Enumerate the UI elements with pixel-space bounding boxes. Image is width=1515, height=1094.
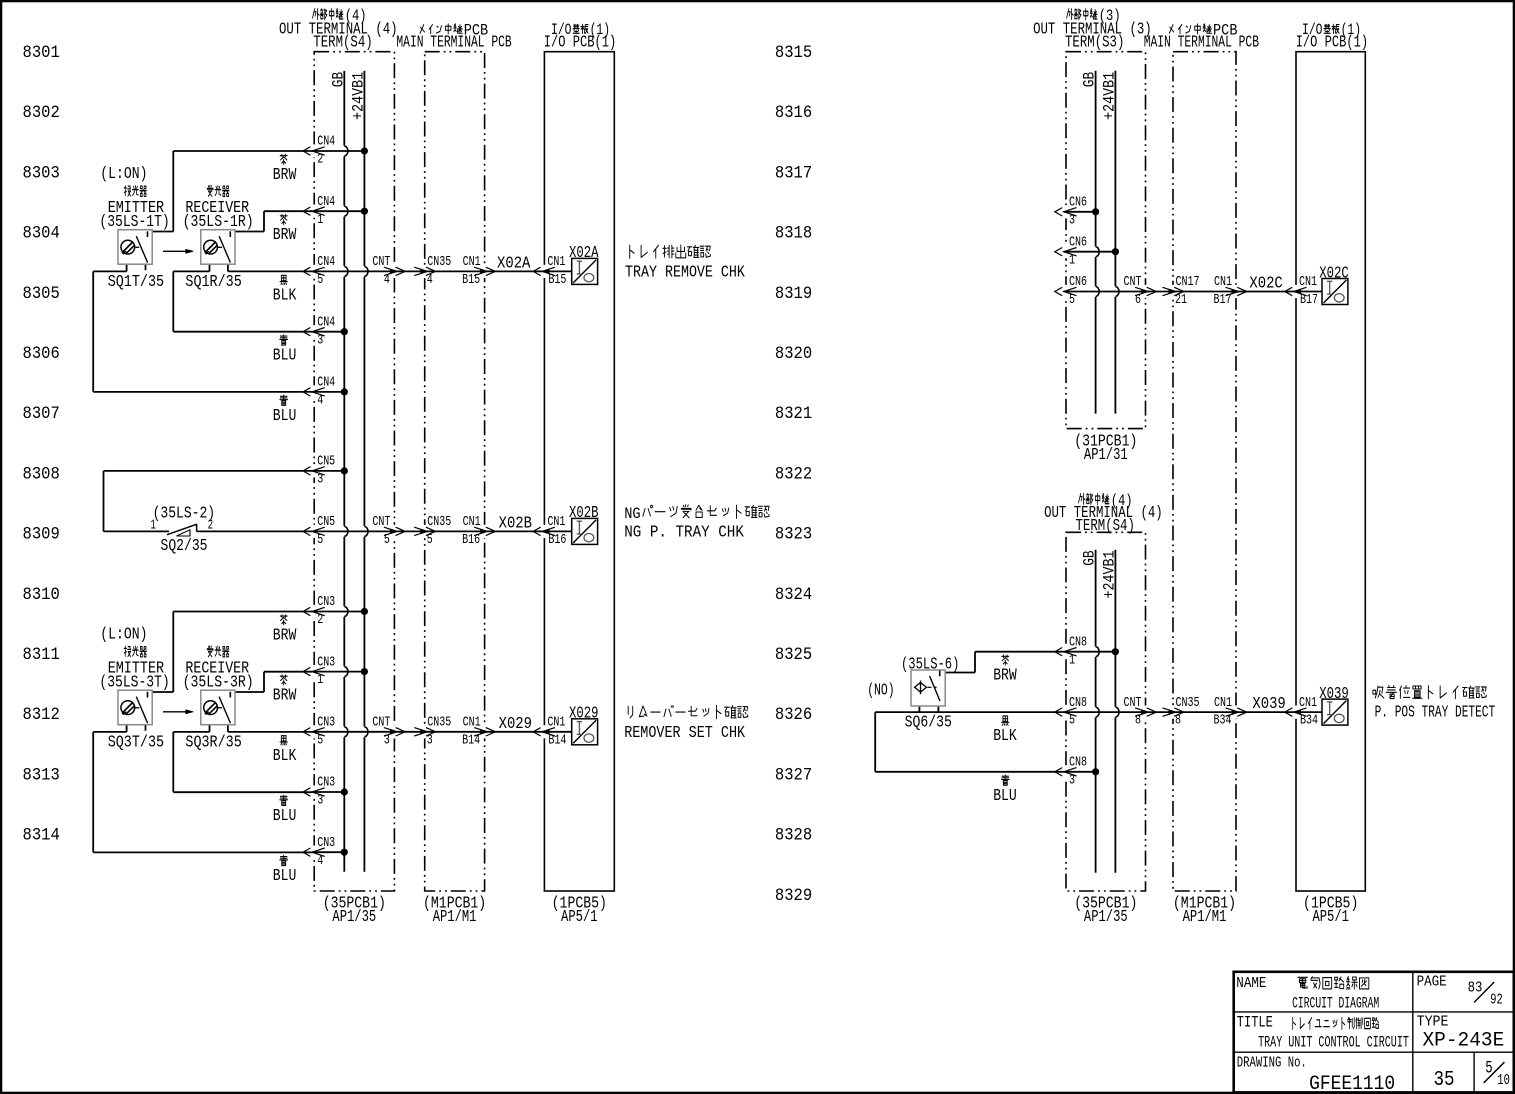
svg-text:B34: B34 — [1300, 713, 1318, 729]
svg-text:10: 10 — [1497, 1071, 1510, 1089]
svg-text:CIRCUIT DIAGRAM: CIRCUIT DIAGRAM — [1292, 994, 1379, 1012]
svg-text:8313: 8313 — [23, 766, 60, 785]
svg-text:AP1/31: AP1/31 — [1084, 445, 1128, 464]
svg-text:PAGE: PAGE — [1417, 974, 1447, 990]
svg-text:+24VB1: +24VB1 — [1100, 551, 1118, 599]
svg-text:SQ1T/35: SQ1T/35 — [108, 272, 164, 291]
svg-text:BLU: BLU — [273, 406, 297, 425]
svg-text:(35LS-1T): (35LS-1T) — [99, 212, 169, 231]
svg-text:CNT: CNT — [372, 254, 390, 270]
svg-text:X029: X029 — [569, 704, 599, 723]
svg-text:5: 5 — [384, 532, 390, 548]
svg-text:CN1: CN1 — [1299, 274, 1317, 290]
svg-text:XP-243E: XP-243E — [1423, 1029, 1505, 1052]
svg-text:SQ3T/35: SQ3T/35 — [108, 732, 164, 751]
svg-text:NAME: NAME — [1236, 976, 1266, 992]
svg-text:CN35: CN35 — [1176, 695, 1200, 711]
svg-text:CN35: CN35 — [427, 715, 451, 731]
svg-text:1: 1 — [151, 518, 157, 534]
svg-text:8325: 8325 — [775, 646, 812, 665]
svg-text:CN1: CN1 — [547, 254, 565, 270]
svg-text:4: 4 — [384, 272, 390, 288]
svg-text:NG: NG — [624, 505, 640, 523]
svg-text:2: 2 — [208, 518, 214, 534]
svg-text:BLU: BLU — [273, 346, 297, 365]
svg-text:SQ3R/35: SQ3R/35 — [185, 732, 241, 751]
svg-text:(L:ON): (L:ON) — [100, 164, 147, 183]
svg-text:CN6: CN6 — [1069, 234, 1087, 250]
svg-text:BLU: BLU — [273, 866, 297, 885]
svg-text:8326: 8326 — [775, 706, 812, 725]
svg-text:4: 4 — [427, 272, 433, 288]
svg-text:8319: 8319 — [775, 285, 812, 304]
svg-text:8328: 8328 — [775, 827, 812, 846]
svg-text:X02B: X02B — [499, 514, 533, 533]
svg-text:5: 5 — [317, 732, 323, 748]
svg-text:BLK: BLK — [273, 285, 297, 304]
svg-text:8327: 8327 — [775, 766, 812, 785]
svg-text:CN1: CN1 — [463, 715, 481, 731]
svg-text:DRAWING No.: DRAWING No. — [1237, 1055, 1307, 1071]
svg-text:CNT: CNT — [1124, 695, 1142, 711]
svg-text:CNT: CNT — [1124, 274, 1142, 290]
svg-text:8316: 8316 — [775, 104, 812, 123]
svg-text:TITLE: TITLE — [1237, 1013, 1273, 1031]
svg-text:8307: 8307 — [23, 405, 60, 424]
svg-text:8324: 8324 — [775, 586, 812, 605]
svg-text:GB: GB — [329, 72, 347, 87]
svg-text:1: 1 — [1069, 252, 1075, 268]
svg-text:AP1/35: AP1/35 — [332, 907, 376, 926]
svg-text:X02A: X02A — [569, 243, 599, 262]
svg-text:X039: X039 — [1252, 694, 1285, 713]
svg-text:(35LS-1R): (35LS-1R) — [183, 212, 254, 231]
svg-text:(35LS-6): (35LS-6) — [901, 655, 959, 674]
svg-text:+24VB1: +24VB1 — [1100, 72, 1118, 120]
svg-text:8317: 8317 — [775, 164, 812, 183]
svg-text:SQ1R/35: SQ1R/35 — [185, 272, 241, 291]
svg-text:AP1/M1: AP1/M1 — [1183, 907, 1227, 926]
svg-text:CN3: CN3 — [317, 654, 335, 670]
svg-text:8302: 8302 — [23, 104, 60, 123]
svg-text:1: 1 — [1069, 652, 1075, 668]
svg-text:5: 5 — [1069, 713, 1075, 729]
svg-text:8: 8 — [1175, 713, 1181, 729]
svg-text:8309: 8309 — [23, 526, 60, 545]
svg-text:CN8: CN8 — [1069, 755, 1087, 771]
svg-text:2: 2 — [317, 152, 323, 168]
svg-text:B16: B16 — [548, 532, 566, 548]
svg-text:TRAY UNIT CONTROL CIRCUIT: TRAY UNIT CONTROL CIRCUIT — [1258, 1033, 1409, 1051]
svg-text:X02C: X02C — [1249, 274, 1283, 293]
svg-text:(NO): (NO) — [867, 680, 894, 699]
svg-text:8: 8 — [1135, 713, 1141, 729]
svg-text:X029: X029 — [499, 714, 532, 733]
svg-text:(35LS-3R): (35LS-3R) — [183, 673, 254, 692]
svg-text:8312: 8312 — [23, 706, 60, 725]
svg-text:B17: B17 — [1214, 292, 1232, 308]
svg-text:BLK: BLK — [993, 726, 1017, 745]
svg-text:CN8: CN8 — [1069, 695, 1087, 711]
svg-text:8318: 8318 — [775, 225, 812, 244]
svg-text:3: 3 — [384, 732, 390, 748]
svg-text:CN6: CN6 — [1069, 195, 1087, 211]
svg-text:P. POS TRAY DETECT: P. POS TRAY DETECT — [1375, 703, 1496, 722]
svg-text:X02B: X02B — [569, 503, 599, 522]
svg-text:CN4: CN4 — [317, 194, 335, 210]
svg-text:3: 3 — [427, 732, 433, 748]
svg-text:B14: B14 — [462, 732, 480, 748]
svg-text:CNT: CNT — [372, 514, 390, 530]
svg-text:TYPE: TYPE — [1417, 1015, 1449, 1031]
svg-text:BRW: BRW — [273, 686, 297, 705]
svg-text:B16: B16 — [462, 532, 480, 548]
svg-text:3: 3 — [1069, 772, 1075, 788]
svg-text:BLU: BLU — [993, 786, 1017, 805]
svg-text:3: 3 — [1069, 212, 1075, 228]
svg-text:(L:ON): (L:ON) — [100, 624, 147, 643]
svg-text:CN1: CN1 — [463, 254, 481, 270]
svg-text:(35LS-3T): (35LS-3T) — [99, 673, 169, 692]
svg-text:B15: B15 — [548, 272, 566, 288]
svg-text:CN4: CN4 — [317, 134, 335, 150]
svg-text:4: 4 — [317, 853, 323, 869]
svg-text:CN5: CN5 — [317, 454, 335, 470]
svg-text:AP1/35: AP1/35 — [1084, 907, 1128, 926]
svg-text:CN4: CN4 — [317, 375, 335, 391]
svg-text:CN4: CN4 — [317, 314, 335, 330]
svg-text:8306: 8306 — [23, 345, 60, 364]
svg-text:CN4: CN4 — [317, 254, 335, 270]
svg-text:BLK: BLK — [273, 746, 297, 765]
svg-text:6: 6 — [1135, 292, 1141, 308]
svg-text:AP5/1: AP5/1 — [561, 907, 598, 926]
svg-text:B17: B17 — [1300, 292, 1318, 308]
svg-text:CN1: CN1 — [1214, 274, 1232, 290]
svg-text:83: 83 — [1468, 981, 1483, 997]
svg-text:CN1: CN1 — [1299, 695, 1317, 711]
svg-text:CN5: CN5 — [317, 514, 335, 530]
svg-text:8314: 8314 — [23, 827, 60, 846]
svg-text:4: 4 — [317, 393, 323, 409]
svg-text:X039: X039 — [1319, 684, 1349, 703]
svg-text:8320: 8320 — [775, 345, 812, 364]
svg-text:BRW: BRW — [273, 225, 297, 244]
svg-text:8329: 8329 — [775, 887, 812, 906]
svg-text:TERM(S3): TERM(S3) — [1065, 32, 1124, 51]
svg-text:8322: 8322 — [775, 465, 812, 484]
svg-text:8301: 8301 — [23, 44, 60, 63]
svg-text:CN1: CN1 — [547, 715, 565, 731]
svg-text:CN1: CN1 — [1214, 695, 1232, 711]
svg-text:1: 1 — [317, 212, 323, 228]
svg-text:BLU: BLU — [273, 806, 297, 825]
svg-text:3: 3 — [317, 472, 323, 488]
svg-text:3: 3 — [317, 793, 323, 809]
svg-text:8305: 8305 — [23, 285, 60, 304]
svg-text:8323: 8323 — [775, 526, 812, 545]
svg-text:CN3: CN3 — [317, 594, 335, 610]
svg-text:SQ6/35: SQ6/35 — [905, 713, 952, 732]
svg-text:+24VB1: +24VB1 — [349, 72, 367, 120]
svg-text:CN1: CN1 — [547, 514, 565, 530]
svg-text:SQ2/35: SQ2/35 — [161, 536, 208, 555]
svg-text:AP5/1: AP5/1 — [1312, 907, 1349, 926]
svg-text:TRAY REMOVE CHK: TRAY REMOVE CHK — [625, 262, 745, 281]
svg-text:2: 2 — [317, 612, 323, 628]
svg-text:8308: 8308 — [23, 465, 60, 484]
svg-text:CN3: CN3 — [317, 715, 335, 731]
svg-text:(35LS-2): (35LS-2) — [153, 504, 216, 523]
svg-text:GB: GB — [1081, 72, 1099, 87]
svg-text:BRW: BRW — [273, 626, 297, 645]
svg-text:B14: B14 — [548, 732, 566, 748]
svg-text:3: 3 — [317, 332, 323, 348]
svg-text:REMOVER SET CHK: REMOVER SET CHK — [624, 723, 745, 742]
svg-text:8310: 8310 — [23, 586, 60, 605]
svg-text:NG P. TRAY CHK: NG P. TRAY CHK — [624, 522, 744, 541]
svg-text:AP1/M1: AP1/M1 — [433, 907, 477, 926]
svg-text:CN3: CN3 — [317, 775, 335, 791]
svg-text:B34: B34 — [1214, 713, 1232, 729]
svg-text:CN35: CN35 — [427, 514, 451, 530]
svg-text:1: 1 — [317, 672, 323, 688]
svg-text:5: 5 — [317, 532, 323, 548]
svg-text:CNT: CNT — [372, 715, 390, 731]
svg-text:I/O PCB(1): I/O PCB(1) — [544, 32, 616, 51]
svg-text:BRW: BRW — [993, 666, 1017, 685]
svg-text:MAIN TERMINAL PCB: MAIN TERMINAL PCB — [1144, 32, 1259, 51]
svg-text:TERM(S4): TERM(S4) — [1076, 516, 1135, 535]
svg-text:35: 35 — [1434, 1068, 1455, 1092]
svg-text:21: 21 — [1175, 292, 1187, 308]
svg-text:CN6: CN6 — [1069, 274, 1087, 290]
svg-text:B15: B15 — [462, 272, 480, 288]
svg-text:8315: 8315 — [775, 44, 812, 63]
svg-text:TERM(S4): TERM(S4) — [313, 32, 372, 51]
svg-text:5: 5 — [427, 532, 433, 548]
svg-text:8311: 8311 — [23, 646, 60, 665]
svg-text:8321: 8321 — [775, 405, 812, 424]
svg-text:MAIN TERMINAL PCB: MAIN TERMINAL PCB — [396, 32, 511, 51]
svg-text:GFEE1110: GFEE1110 — [1309, 1073, 1395, 1094]
svg-text:X02C: X02C — [1319, 263, 1349, 282]
svg-text:8303: 8303 — [23, 164, 60, 183]
svg-text:GB: GB — [1081, 551, 1099, 566]
svg-text:CN8: CN8 — [1069, 634, 1087, 650]
svg-text:CN3: CN3 — [317, 835, 335, 851]
svg-text:CN35: CN35 — [427, 254, 451, 270]
svg-text:5: 5 — [317, 272, 323, 288]
svg-text:CN17: CN17 — [1176, 274, 1200, 290]
svg-text:5: 5 — [1069, 292, 1075, 308]
svg-text:BRW: BRW — [273, 165, 297, 184]
svg-text:8304: 8304 — [23, 225, 60, 244]
svg-text:X02A: X02A — [497, 254, 531, 273]
svg-text:I/O PCB(1): I/O PCB(1) — [1296, 32, 1368, 51]
svg-text:92: 92 — [1490, 993, 1503, 1009]
svg-text:CN1: CN1 — [463, 514, 481, 530]
